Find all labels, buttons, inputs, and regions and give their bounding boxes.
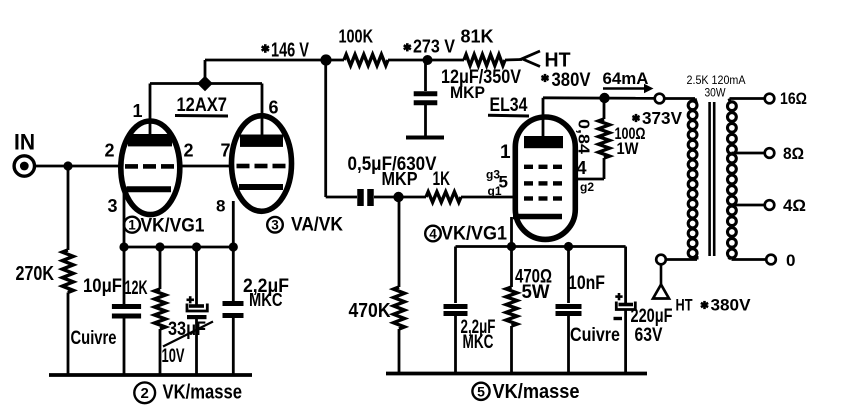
resistor 1K <box>426 169 461 202</box>
wire V2 cathode bus <box>456 247 626 304</box>
svg-text:3: 3 <box>271 218 279 233</box>
capacitor 2,2uF MKC (left) <box>223 247 290 375</box>
label (3) VA/VK <box>267 215 343 236</box>
wire anodes V1a-V1b <box>150 82 262 85</box>
V1b grid (dashes) <box>237 164 286 169</box>
svg-text:4Ω: 4Ω <box>783 196 806 215</box>
svg-text:Cuivre: Cuivre <box>71 328 117 349</box>
secondary tap 8R <box>732 144 805 163</box>
svg-text:1: 1 <box>133 101 143 121</box>
pentode V2 EL34 envelope <box>515 117 575 239</box>
resistor 270K <box>16 250 74 293</box>
svg-text:33μF: 33μF <box>168 319 206 340</box>
svg-text:16Ω: 16Ω <box>780 89 807 108</box>
capacitor 220uF/63V electrolytic <box>614 293 673 374</box>
node k6 <box>564 242 573 251</box>
pin 4 and g2 labels <box>577 158 595 194</box>
pin labels g3 5 g1 <box>486 168 508 199</box>
node k2 <box>155 242 164 251</box>
svg-text:5W: 5W <box>522 282 550 303</box>
triode V1b (12AX7 b) envelope <box>232 116 292 212</box>
svg-text:EL34: EL34 <box>490 95 528 116</box>
svg-text:1K: 1K <box>433 169 451 190</box>
svg-text:7: 7 <box>221 141 231 161</box>
node k5 <box>507 242 516 251</box>
label EL34 <box>488 95 529 116</box>
svg-text:100K: 100K <box>339 26 374 47</box>
svg-text:g1: g1 <box>488 184 502 198</box>
node anode tie <box>197 76 213 92</box>
svg-text:373V: 373V <box>642 108 682 128</box>
svg-text:2: 2 <box>184 141 194 161</box>
wire V1 cathode bus <box>124 246 233 249</box>
capacitor 33uF electrolytic <box>162 247 214 375</box>
svg-text:10μF: 10μF <box>83 276 122 297</box>
wire anode tie up to +146V rail <box>205 60 344 84</box>
pin 1 <box>133 101 143 121</box>
resistor 81K <box>461 26 506 66</box>
pin 7 <box>221 141 231 161</box>
svg-text:8Ω: 8Ω <box>783 144 804 163</box>
svg-text:HT: HT <box>676 296 693 315</box>
svg-text:1: 1 <box>500 142 511 163</box>
svg-text:63V: 63V <box>635 325 663 346</box>
capacitor 10nF <box>556 247 606 374</box>
svg-text:380V: 380V <box>552 70 591 91</box>
secondary tap 0 <box>732 251 796 270</box>
node input junction <box>63 161 72 170</box>
svg-text:VA/VK: VA/VK <box>291 215 343 236</box>
label +373V <box>632 108 682 128</box>
svg-text:380V: 380V <box>711 296 752 315</box>
node k1 <box>119 242 128 251</box>
svg-text:0,84: 0,84 <box>575 119 592 154</box>
wire cap to 1K <box>374 196 426 199</box>
label +273V <box>404 37 455 57</box>
wire input node down to ground <box>67 166 70 375</box>
ground bus left <box>49 373 252 377</box>
V1b cathode <box>233 187 283 247</box>
svg-text:HT: HT <box>545 50 571 72</box>
label (5) VK/masse <box>472 381 579 403</box>
current arrow 64mA <box>603 70 654 93</box>
node k3 <box>192 242 201 251</box>
pin 1 (EL34) <box>500 142 511 163</box>
triode V1a (12AX7 a) envelope <box>121 121 180 215</box>
label 12AX7 <box>175 95 228 116</box>
svg-text:10V: 10V <box>162 346 185 367</box>
resistor 470R 5W <box>506 247 552 374</box>
V2 grid g1 (dashes) <box>524 196 562 200</box>
wire +146V node down to coupling cap <box>326 60 357 197</box>
wire 81K to HT feed <box>505 58 522 61</box>
svg-text:8: 8 <box>216 197 225 216</box>
svg-text:470K: 470K <box>349 300 391 322</box>
wire 100K to 81K <box>388 59 464 62</box>
svg-text:12AX7: 12AX7 <box>177 95 228 116</box>
label (1) VK/VG1 <box>124 215 205 236</box>
svg-text:g2: g2 <box>580 180 594 194</box>
svg-text:4: 4 <box>577 158 587 178</box>
label (4) VK/VG1 <box>425 224 507 245</box>
svg-text:1: 1 <box>128 218 136 233</box>
pin 6 <box>269 98 279 118</box>
svg-text:VK/VG1: VK/VG1 <box>141 215 205 236</box>
svg-text:4: 4 <box>429 226 437 241</box>
wire V2 anode to OT primary <box>543 96 655 99</box>
svg-text:MKP: MKP <box>450 83 485 102</box>
pin 8 <box>216 197 225 216</box>
V2 anode <box>524 98 563 148</box>
V1a grid (dashes) <box>125 164 174 169</box>
label HT +380V (top) <box>541 50 590 92</box>
pin 2 (left) <box>105 141 115 161</box>
svg-text:30W: 30W <box>705 86 727 100</box>
secondary tap 4R <box>732 196 807 215</box>
input connector IN <box>14 130 35 177</box>
svg-text:0: 0 <box>786 251 795 270</box>
svg-text:MKC: MKC <box>463 332 494 353</box>
resistor 100K <box>339 26 389 66</box>
label +146V <box>262 40 310 62</box>
svg-text:VK/VG1: VK/VG1 <box>441 224 507 245</box>
HT connector triangle <box>653 265 669 299</box>
V1b anode <box>240 84 283 147</box>
secondary tap 16R <box>730 89 808 108</box>
label Cuivre (right) <box>570 325 620 346</box>
svg-text:10nF: 10nF <box>568 273 605 294</box>
svg-text:MKP: MKP <box>382 169 418 189</box>
transformer core <box>710 102 715 256</box>
V1a cathode <box>124 189 171 247</box>
ground bus right <box>386 372 647 376</box>
label HT +380V (bottom) <box>676 296 752 315</box>
svg-text:IN: IN <box>14 130 35 155</box>
node k4 <box>229 242 238 251</box>
svg-text:146 V: 146 V <box>271 40 309 62</box>
wire terminal to primary <box>665 97 696 100</box>
V2 grid g3 (dashes) <box>524 165 562 169</box>
svg-text:220μF: 220μF <box>631 306 673 327</box>
pin 3 <box>108 196 118 216</box>
svg-text:1W: 1W <box>617 139 640 158</box>
svg-text:3: 3 <box>108 196 118 216</box>
svg-text:81K: 81K <box>461 26 495 47</box>
label Cuivre (left) <box>71 328 117 349</box>
V1a anode <box>128 84 172 147</box>
svg-text:64mA: 64mA <box>603 70 649 88</box>
svg-text:5: 5 <box>477 383 485 399</box>
svg-text:Cuivre: Cuivre <box>570 325 620 346</box>
svg-text:2: 2 <box>105 141 115 161</box>
node +146V <box>320 54 331 65</box>
resistor 12K <box>125 247 166 375</box>
resistor 470K grid leak <box>349 197 405 374</box>
node +373V <box>599 93 609 103</box>
V2 cathode <box>512 217 563 247</box>
resistor 100R 1W <box>599 98 646 158</box>
svg-text:VK/masse: VK/masse <box>163 381 243 404</box>
node grid junction <box>393 192 403 202</box>
wire g2 pin 4 to 100R <box>575 158 604 179</box>
label 2.5K 120mA 30W <box>687 73 746 100</box>
label 0,84 (rotated) <box>575 119 592 154</box>
svg-text:6: 6 <box>269 98 279 118</box>
terminal primary bottom <box>656 255 666 265</box>
HT feed chevron <box>522 51 540 67</box>
svg-text:VK/masse: VK/masse <box>493 381 580 403</box>
node +273V <box>423 55 433 65</box>
svg-text:MKC: MKC <box>249 290 283 310</box>
V2 grid g2 (dashes) <box>524 181 562 185</box>
wire 1K to EL34 grid <box>461 196 517 199</box>
capacitor 2,2uF MKC (right) <box>444 307 496 374</box>
svg-text:270K: 270K <box>16 263 55 285</box>
label (2) VK/masse <box>134 381 242 404</box>
transformer secondary winding <box>728 99 737 260</box>
capacitor 10uF <box>83 247 141 375</box>
transformer primary winding <box>688 99 697 259</box>
pin 2 (right) <box>184 141 194 161</box>
wire primary bottom to HT terminal <box>666 256 697 260</box>
wire V1a grid-row to V1b grid <box>178 165 234 168</box>
wire +273V node down to C 12uF <box>424 60 427 91</box>
wire IN to V1 grid <box>35 165 122 168</box>
svg-text:2: 2 <box>141 385 149 402</box>
terminal primary top <box>655 94 665 104</box>
svg-text:273 V: 273 V <box>413 37 455 57</box>
capacitor 0,5uF/630V MKP <box>348 154 437 206</box>
svg-text:12K: 12K <box>125 278 148 299</box>
capacitor 12uF/350V MKP <box>406 67 521 138</box>
